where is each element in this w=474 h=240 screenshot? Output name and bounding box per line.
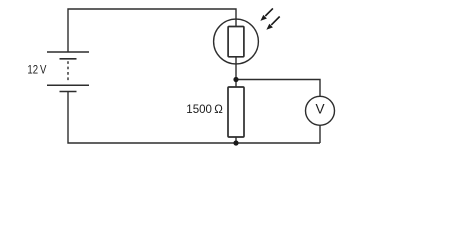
svg-text:V: V — [315, 101, 324, 116]
svg-text:1500 Ω: 1500 Ω — [186, 102, 223, 116]
svg-text:12 V: 12 V — [27, 63, 47, 77]
